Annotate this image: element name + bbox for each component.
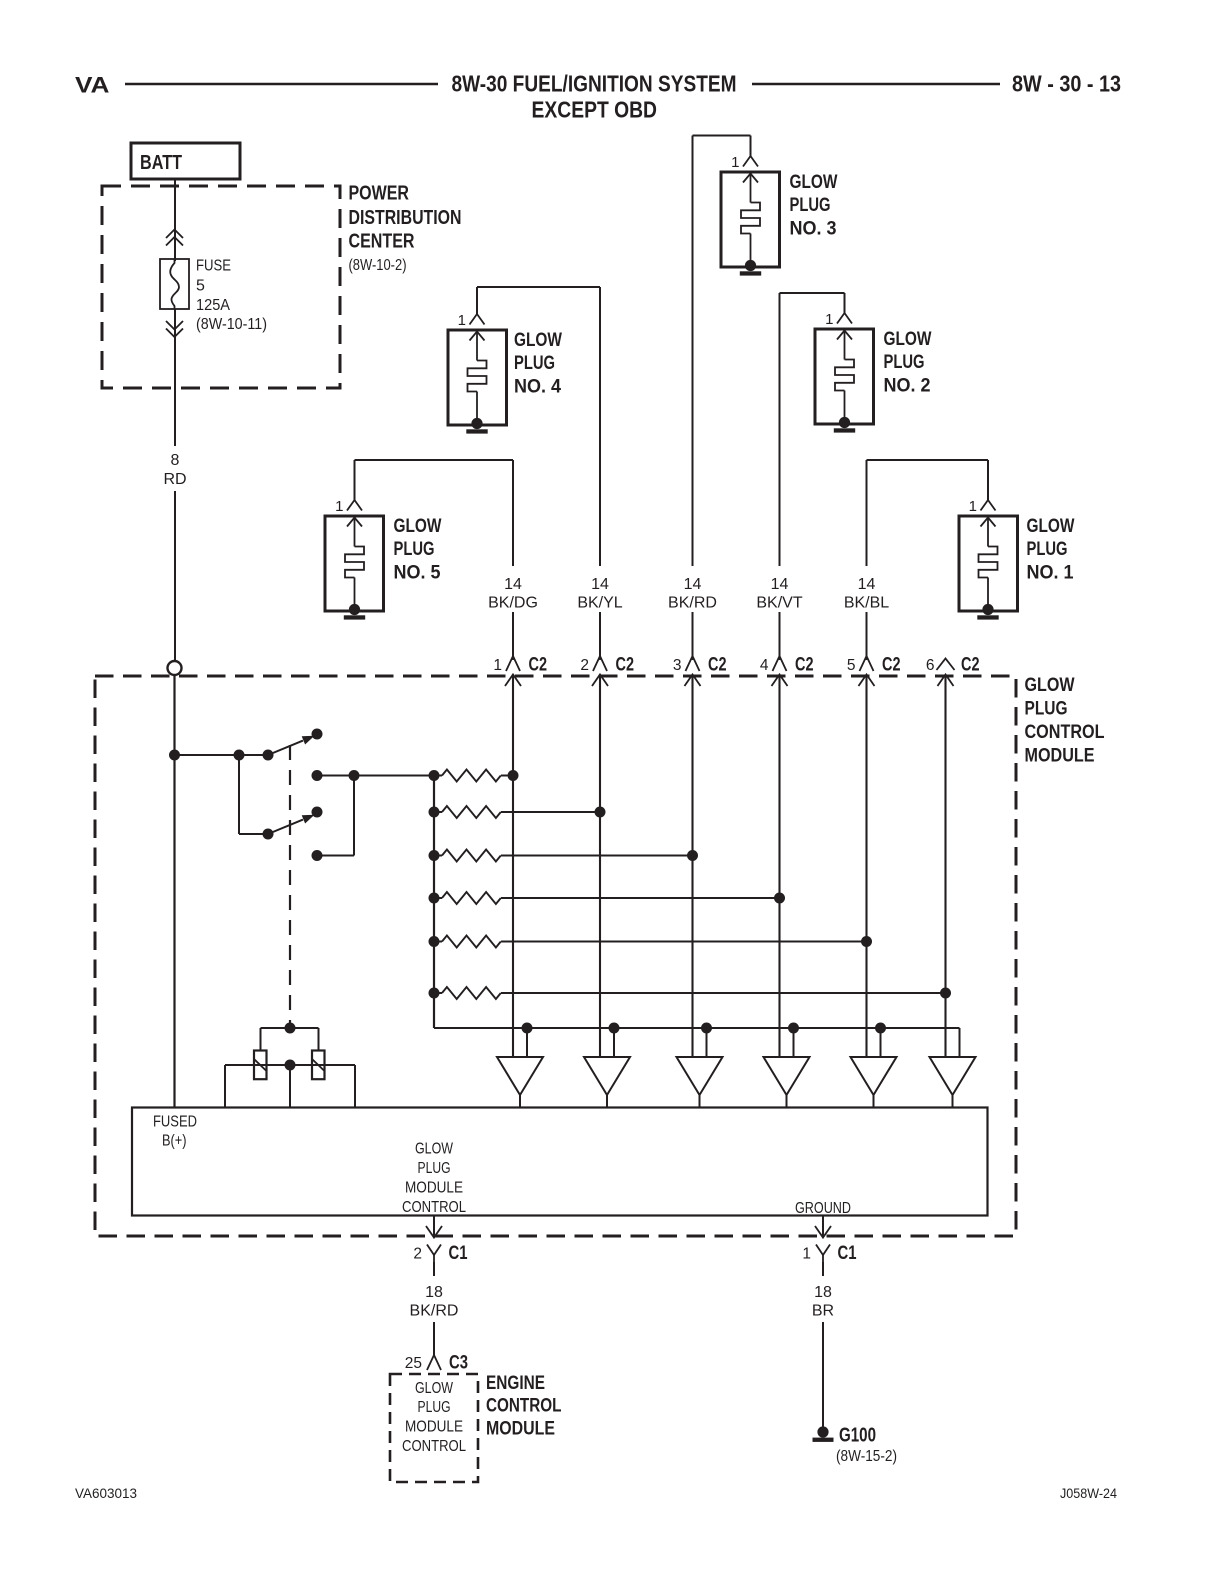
- svg-text:BK/BL: BK/BL: [844, 595, 889, 612]
- svg-text:PLUG: PLUG: [1027, 539, 1068, 560]
- wire contact outputs to resistor bus: [317, 770, 434, 856]
- svg-text:PLUG: PLUG: [1025, 698, 1068, 719]
- glow plug NO. 5: [325, 498, 442, 620]
- module control logic box: [132, 1108, 988, 1216]
- svg-text:BK/YL: BK/YL: [577, 595, 622, 612]
- svg-text:CONTROL: CONTROL: [486, 1396, 562, 1417]
- svg-text:GLOW: GLOW: [884, 329, 932, 350]
- svg-text:14: 14: [504, 576, 522, 593]
- resistor R5 row to pin 5: [429, 936, 873, 948]
- engine control module label: [486, 1373, 562, 1439]
- connector C2 pin 6: [926, 654, 980, 687]
- switch contact 2: [239, 755, 323, 861]
- svg-text:BATT: BATT: [140, 151, 182, 174]
- driver Q1: [497, 1057, 543, 1108]
- power distribution center dashed box: [102, 186, 340, 388]
- svg-text:BK/DG: BK/DG: [488, 595, 538, 612]
- wire glow plug 5 to C2 pin 1 (BK/DG): [355, 460, 514, 656]
- fuse 5 label: [196, 258, 267, 334]
- svg-text:2: 2: [580, 657, 589, 674]
- svg-text:PLUG: PLUG: [514, 353, 555, 374]
- svg-text:5: 5: [847, 657, 856, 674]
- svg-text:8W - 30 - 13: 8W - 30 - 13: [1012, 71, 1121, 97]
- connector C2 pin 2: [580, 654, 634, 687]
- svg-text:MODULE: MODULE: [1025, 746, 1095, 767]
- svg-text:(8W-10-11): (8W-10-11): [196, 316, 267, 333]
- svg-text:1: 1: [731, 154, 739, 171]
- wire C2 pin 3 to driver Q3: [691, 675, 693, 1058]
- svg-text:8: 8: [171, 452, 180, 469]
- resistor bus vertical: [433, 776, 435, 1029]
- svg-text:C2: C2: [882, 654, 901, 676]
- svg-text:MODULE: MODULE: [486, 1418, 555, 1439]
- svg-text:EXCEPT OBD: EXCEPT OBD: [532, 97, 658, 123]
- footer VA603013: [75, 1486, 137, 1501]
- title line 2 EXCEPT OBD: [532, 97, 658, 123]
- wire 18 BR: [822, 1322, 824, 1427]
- wire BATT to fuse: [174, 179, 176, 261]
- driver gate bus: [434, 1023, 960, 1058]
- page number 8W - 30 - 13: [1012, 71, 1121, 97]
- wire glow plug 2 to C2 pin 4 (BK/VT): [780, 293, 845, 656]
- wire C2 pin 1 to driver Q1: [512, 675, 514, 1058]
- svg-text:18: 18: [814, 1284, 832, 1301]
- svg-text:NO. 3: NO. 3: [790, 219, 837, 240]
- connector C2 pin 3: [673, 654, 727, 687]
- title 8W-30 FUEL/IGNITION SYSTEM: [452, 71, 737, 97]
- label glow plug module control (ECM pin): [402, 1380, 466, 1455]
- svg-text:C2: C2: [961, 654, 980, 676]
- svg-text:C2: C2: [616, 654, 635, 676]
- svg-text:BK/VT: BK/VT: [756, 595, 802, 612]
- glow plug control module label: [1025, 675, 1105, 767]
- connector C2 pin 4: [760, 654, 814, 687]
- svg-text:(8W-10-2): (8W-10-2): [349, 257, 407, 274]
- glow plug NO. 4: [448, 312, 562, 434]
- glow plug control module dashed box: [95, 676, 1016, 1236]
- svg-text:3: 3: [673, 657, 682, 674]
- battery feed box BATT: [131, 143, 240, 179]
- svg-text:4: 4: [760, 657, 769, 674]
- relay coil pair: [225, 1028, 355, 1108]
- svg-text:NO. 2: NO. 2: [884, 376, 931, 397]
- node: module B+ entry circle: [168, 661, 182, 675]
- resistor R2 row to pin 2: [429, 806, 606, 818]
- svg-text:BK/RD: BK/RD: [410, 1303, 459, 1320]
- svg-text:1: 1: [335, 498, 343, 515]
- svg-text:GLOW: GLOW: [394, 516, 442, 537]
- svg-text:MODULE: MODULE: [405, 1419, 463, 1436]
- svg-text:POWER: POWER: [349, 183, 410, 205]
- svg-text:(8W-15-2): (8W-15-2): [836, 1448, 897, 1465]
- svg-text:PLUG: PLUG: [884, 352, 925, 373]
- svg-text:C2: C2: [529, 654, 548, 676]
- svg-text:C1: C1: [838, 1242, 857, 1264]
- svg-text:PLUG: PLUG: [418, 1160, 451, 1177]
- wire fuse to module entry: [174, 309, 176, 661]
- wire glow plug 4 to C2 pin 2 (BK/YL): [477, 287, 600, 656]
- svg-text:GLOW: GLOW: [415, 1380, 454, 1397]
- wire labels 14 ga: [488, 576, 889, 612]
- svg-text:DISTRIBUTION: DISTRIBUTION: [349, 207, 462, 229]
- svg-text:C2: C2: [795, 654, 814, 676]
- svg-text:1: 1: [825, 311, 833, 328]
- svg-text:BR: BR: [812, 1303, 834, 1320]
- svg-text:PLUG: PLUG: [394, 539, 435, 560]
- svg-text:FUSE: FUSE: [196, 258, 231, 275]
- wire glow plug 3 to C2 pin 3 (BK/RD): [693, 136, 751, 657]
- connector C2 pin 5: [847, 654, 901, 687]
- driver Q2: [584, 1057, 630, 1108]
- resistor R1 row to pin 1: [429, 770, 519, 782]
- resistor R4 row to pin 4: [429, 892, 786, 904]
- svg-text:1: 1: [458, 312, 466, 329]
- svg-text:GLOW: GLOW: [1027, 516, 1075, 537]
- svg-text:J058W-24: J058W-24: [1060, 1486, 1117, 1501]
- page label VA: [75, 73, 110, 98]
- svg-text:14: 14: [684, 576, 702, 593]
- glow plug NO. 3: [721, 154, 838, 276]
- connector C1 pin 1 (ground out): [802, 1216, 856, 1277]
- header rule right: [752, 83, 1000, 86]
- svg-text:CONTROL: CONTROL: [1025, 722, 1105, 743]
- svg-text:BK/RD: BK/RD: [668, 595, 717, 612]
- off-page double chevron up: [166, 230, 183, 246]
- svg-text:NO. 4: NO. 4: [514, 377, 561, 398]
- svg-text:2: 2: [413, 1246, 422, 1263]
- svg-text:PLUG: PLUG: [418, 1399, 451, 1416]
- svg-text:14: 14: [771, 576, 789, 593]
- resistor R3 row to pin 3: [429, 850, 699, 862]
- svg-text:25: 25: [405, 1355, 422, 1372]
- connector C2 pin 1: [493, 654, 547, 687]
- svg-text:NO. 1: NO. 1: [1027, 563, 1074, 584]
- svg-text:PLUG: PLUG: [790, 195, 831, 216]
- svg-text:FUSED: FUSED: [153, 1113, 197, 1130]
- svg-text:14: 14: [591, 576, 609, 593]
- wire glow plug 1 to C2 pin 5 (BK/BL): [867, 460, 989, 656]
- svg-text:GROUND: GROUND: [795, 1200, 851, 1217]
- relay mechanical link (dashed): [285, 745, 296, 1034]
- svg-text:8W-30 FUEL/IGNITION SYSTEM: 8W-30 FUEL/IGNITION SYSTEM: [452, 71, 737, 97]
- svg-text:1: 1: [493, 657, 502, 674]
- svg-text:VA603013: VA603013: [75, 1486, 137, 1501]
- svg-text:RD: RD: [163, 471, 186, 488]
- off-page double chevron down: [166, 321, 183, 337]
- svg-text:1: 1: [969, 498, 977, 515]
- glow plug NO. 1: [959, 498, 1075, 620]
- svg-text:18: 18: [425, 1284, 443, 1301]
- svg-text:C1: C1: [449, 1242, 468, 1264]
- label GLOW PLUG MODULE CONTROL: [402, 1141, 466, 1217]
- svg-text:14: 14: [858, 576, 876, 593]
- power distribution center label: [349, 183, 462, 275]
- svg-text:C3: C3: [449, 1352, 468, 1374]
- svg-text:GLOW: GLOW: [1025, 675, 1075, 696]
- connector C1 pin 2 (module control out): [413, 1216, 467, 1277]
- svg-text:ENGINE: ENGINE: [486, 1373, 545, 1394]
- wire C2 pin 6 to driver Q6: [944, 675, 946, 1058]
- svg-text:CONTROL: CONTROL: [402, 1199, 466, 1216]
- fuse 5 body: [160, 259, 189, 309]
- header rule left: [125, 83, 438, 86]
- switch contact 1: [175, 729, 323, 782]
- svg-text:CONTROL: CONTROL: [402, 1438, 466, 1455]
- svg-text:5: 5: [196, 278, 205, 295]
- wire C2 pin 5 to driver Q5: [865, 675, 867, 1058]
- label GROUND: [795, 1200, 851, 1217]
- svg-text:1: 1: [802, 1246, 811, 1263]
- svg-text:MODULE: MODULE: [405, 1180, 463, 1197]
- svg-text:NO. 5: NO. 5: [394, 563, 441, 584]
- engine control module dashed box: [390, 1374, 478, 1482]
- resistor R6 row to pin 6: [429, 987, 952, 999]
- driver Q5: [851, 1057, 897, 1108]
- footer J058W-24: [1060, 1486, 1117, 1501]
- wire label 18 BR: [812, 1284, 834, 1320]
- svg-text:VA: VA: [75, 73, 110, 98]
- driver Q6: [930, 1057, 976, 1108]
- glow plug NO. 2: [815, 311, 932, 433]
- connector C3 pin 25: [405, 1352, 468, 1374]
- label FUSED B(+): [153, 1113, 197, 1149]
- svg-text:CENTER: CENTER: [349, 230, 415, 252]
- svg-text:GLOW: GLOW: [514, 330, 562, 351]
- wire B+ inside module: [169, 675, 180, 1108]
- svg-text:B(+): B(+): [162, 1133, 187, 1150]
- svg-text:125A: 125A: [196, 297, 230, 314]
- wire label 18 BK/RD: [410, 1284, 459, 1320]
- wire 18 BK/RD: [433, 1322, 435, 1355]
- ground G100: [813, 1425, 898, 1466]
- driver Q3: [677, 1057, 723, 1108]
- svg-text:GLOW: GLOW: [415, 1141, 454, 1158]
- svg-text:G100: G100: [839, 1425, 876, 1447]
- wire label 8 RD: [163, 452, 186, 488]
- svg-text:6: 6: [926, 657, 935, 674]
- wire C2 pin 2 to driver Q2: [599, 675, 601, 1058]
- svg-text:GLOW: GLOW: [790, 172, 838, 193]
- wire C2 pin 4 to driver Q4: [778, 675, 780, 1058]
- svg-text:C2: C2: [708, 654, 727, 676]
- driver Q4: [764, 1057, 810, 1108]
